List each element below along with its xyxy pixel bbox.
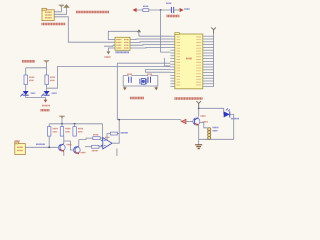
wire bus-R5 [48,124,50,127]
red title top [76,11,109,14]
junction dot base wire [48,146,50,148]
wire J2 to Q2 base [25,146,58,148]
wire R4-D4 [46,85,48,92]
wire Q3 to R8 [79,138,93,139]
wire R5 down [48,136,50,147]
net vertical to output stage [117,63,181,119]
opamp output wire up [112,120,119,144]
photodiode D3 [20,91,35,96]
gnd arrow crystal right [154,87,158,90]
crystal loop wires [123,76,158,88]
connector J2 [15,142,25,155]
wire to LED anode [199,108,224,114]
ADC wire to MCU p2 [130,38,170,41]
wire after C3 [174,9,180,11]
crystal Y1 [140,79,147,85]
wire sensor top bus [26,67,47,69]
junction dot LED branch [198,107,200,109]
wire J1 pin3 to ADC [54,17,115,42]
red text Q3 [81,152,86,154]
ADC wire to MCU p5 [130,46,170,49]
wire power to collector [198,107,200,117]
capacitor C1 [127,74,132,83]
red text MCU label [175,97,203,100]
MCU right pins [203,36,214,86]
wire D3 to gnd node [26,95,46,99]
junction dot output net [118,119,120,121]
MCU U1 body [175,33,203,89]
power arrow left reset [133,8,137,12]
wire Q2-Q3 base [64,141,73,150]
ADC name text [116,51,130,53]
label under J1 [42,23,66,25]
ADC pin stubs left [112,40,116,48]
xtal wires to MCU [146,69,171,72]
red text amp label [41,109,50,111]
op-amp U3 [101,138,112,149]
junction dot bus 2 [74,123,76,125]
power Y MCU [211,27,216,33]
gnd arrow below D4 [44,100,48,103]
wire opamp net to MCU [117,62,170,64]
resistor R5 [48,127,58,137]
wire bus-R6 [61,124,63,127]
wire Q4 emitter down [198,126,200,145]
wire J1 pin1 to power [54,7,61,11]
ADC gnd arrow [108,48,111,51]
wire collector to coil top [200,123,208,128]
ground symbol output [195,145,202,149]
wire divider node to MCU [47,67,171,89]
blue net text base wire [36,143,45,145]
wire into R9b [85,146,92,148]
resistor R3 [24,75,34,85]
ADC wire to MCU p3 [130,41,170,44]
resistor R9b [92,145,99,150]
MCU right bus [213,34,215,87]
wire reset main [137,9,172,11]
red text above J2 [15,140,21,142]
reset resistor R9 [143,6,149,11]
transistor Q3 [73,146,80,154]
resistor R7 [73,127,83,137]
resistor R6 [60,127,70,137]
wire LED cathode to coil [199,114,234,139]
MCU jog wire [165,58,171,66]
port arrow right RST [180,8,184,12]
resistor R8 [93,135,100,140]
arch wire over ADC [108,31,139,39]
power bar D [59,116,64,118]
coil LS1 [208,128,219,140]
wire reset to RST pin [161,10,171,52]
wire J1 pin2 to power [54,8,66,15]
wire Q3 collector up [78,140,80,147]
wire below opamp to edge [116,148,118,156]
transistor Q4 [193,118,200,126]
junction dot reset [160,9,162,11]
power Y output stage [196,101,201,107]
transistor Q2 [58,144,65,152]
blue net text at output [121,132,128,134]
feedback resistor R10 [107,132,119,141]
ADC wire to MCU p1 [139,35,170,37]
red text crystal-circuit [130,97,144,100]
amp top bus [49,123,102,125]
MCU left pins [170,36,175,86]
capacitor C3 [166,3,174,13]
gnd arrow crystal left [123,87,127,90]
connector J1 [42,8,54,20]
ADC cs stub [104,45,115,46]
red text reset-circuit [167,15,180,18]
power bar C [44,61,49,63]
wire R8 to opamp minus [100,137,102,139]
wire to R4 [46,68,48,75]
photodiode D4 [41,91,57,96]
red text human-detect [22,60,35,63]
red text base R [203,121,209,123]
wire bus down to opamp [102,124,104,141]
wire R6 to Q2 collector [63,136,65,144]
red text opamp [105,136,110,138]
ADC U2 body [115,37,130,50]
red text Q2 [67,144,72,146]
capacitor C2 [147,74,152,83]
wire to R3 [25,68,27,75]
diode at Q4 base [181,119,193,123]
LED D5 [224,108,230,117]
wire Q2 emitter [63,152,65,156]
wire R3-D3 [25,85,27,92]
ADC wire to MCU p4 [130,44,170,47]
power bar A [59,5,64,7]
wire R9b to opamp plus [99,145,103,146]
power arrow B [63,4,69,8]
wire bus-R7 [74,124,76,127]
wire coil bottom stub [206,138,210,140]
resistor R4 [45,75,55,85]
junction dot bus 1 [61,123,63,125]
vcc tick on arch [137,29,141,32]
blue text LED [231,118,239,120]
red text Q4 [201,115,206,117]
